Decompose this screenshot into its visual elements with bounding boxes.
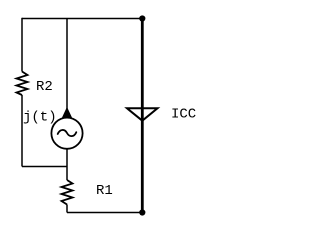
wire: bottom horizontal	[67, 212, 142, 214]
wire: below R1	[66, 205, 68, 213]
svg-text:R2: R2	[36, 79, 53, 95]
wire: below source	[66, 149, 68, 180]
current source J1: circle	[51, 118, 82, 149]
diode ICC: triangle	[127, 108, 158, 120]
wire: top horizontal	[22, 18, 142, 20]
wire: right vertical (thick)	[141, 19, 144, 213]
node: top-right junction dot	[139, 15, 145, 21]
node: bottom-right junction dot	[139, 209, 145, 215]
current source J1: arrow	[63, 108, 72, 117]
resistor R2	[17, 72, 28, 96]
wire: left vertical lower	[21, 95, 23, 167]
wire: left vertical upper	[21, 18, 23, 72]
resistor R1	[62, 180, 73, 205]
current source J1: sine wave	[58, 130, 77, 136]
svg-text:ICC: ICC	[171, 107, 196, 123]
svg-text:j(t): j(t)	[23, 110, 57, 126]
svg-text:R1: R1	[96, 183, 113, 199]
wire: middle vertical from top	[66, 19, 68, 118]
wire: bottom-left horizontal connector	[22, 166, 67, 168]
